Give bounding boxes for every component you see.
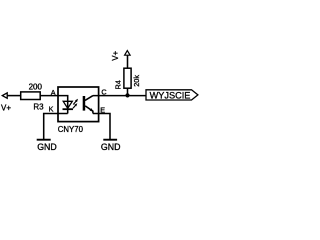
wire arrow to R3 — [7, 95, 21, 97]
svg-text:R3: R3 — [33, 103, 44, 112]
op-to box U1 CNY70 outline — [58, 87, 99, 122]
svg-text:V+: V+ — [1, 104, 11, 113]
wire collector to junction and flag (net at y=95.6) — [93, 95, 146, 97]
ground right bar — [103, 139, 117, 141]
svg-text:GND: GND — [37, 142, 57, 152]
svg-text:A: A — [51, 88, 56, 97]
photon arrow lower — [73, 103, 77, 108]
svg-text:20k: 20k — [132, 75, 141, 87]
resistor R4 — [124, 68, 131, 88]
node V+ input arrow (left) — [2, 93, 7, 98]
output flag WYJSCIE — [146, 90, 198, 100]
svg-text:CNY70: CNY70 — [58, 125, 84, 134]
LED cathode bar — [63, 108, 74, 110]
wire R4 up to V+ symbol — [127, 55, 129, 68]
junction node dot — [125, 93, 129, 97]
ground left bar — [37, 139, 51, 141]
wire K pin to left GND — [44, 114, 68, 140]
transistor emitter line — [85, 106, 93, 114]
LED D1 triangle — [63, 101, 72, 108]
svg-text:R4: R4 — [113, 80, 122, 89]
transistor Q1 base bar — [83, 96, 86, 111]
emitter arrowhead — [90, 108, 94, 111]
svg-text:WYJSCIE: WYJSCIE — [150, 90, 191, 100]
LED cathode lead — [67, 101, 69, 113]
svg-text:200: 200 — [29, 83, 43, 92]
wire junction up to R4 — [127, 88, 129, 95]
power V+ symbol triangle — [125, 51, 131, 56]
photon arrow upper — [73, 99, 78, 105]
svg-text:V+: V+ — [111, 50, 120, 60]
wire R3 to pin A and into box to LED anode — [40, 96, 67, 101]
wire emitter to right GND — [93, 114, 110, 140]
svg-text:K: K — [49, 105, 54, 114]
svg-text:C: C — [101, 88, 106, 97]
resistor R3 — [21, 92, 41, 100]
svg-text:GND: GND — [101, 142, 121, 152]
transistor collector line — [85, 96, 93, 101]
